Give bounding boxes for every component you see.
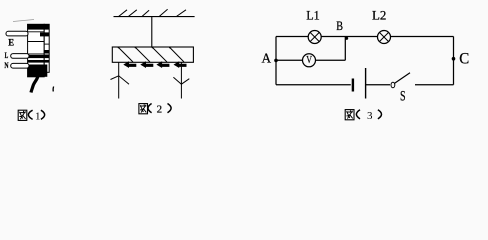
svg-text:S: S — [400, 88, 406, 104]
svg-text:A: A — [262, 51, 272, 66]
svg-text:B: B — [336, 19, 343, 33]
svg-text:L1: L1 — [306, 8, 320, 23]
svg-text:E: E — [8, 38, 14, 48]
svg-text:V: V — [306, 55, 312, 66]
svg-text:2: 2 — [157, 104, 163, 116]
svg-text:1: 1 — [35, 110, 41, 122]
svg-text:L: L — [5, 51, 9, 60]
svg-text:N: N — [4, 61, 8, 70]
svg-text:L2: L2 — [372, 8, 386, 23]
svg-text:C: C — [459, 51, 469, 68]
svg-text:3: 3 — [367, 110, 373, 122]
